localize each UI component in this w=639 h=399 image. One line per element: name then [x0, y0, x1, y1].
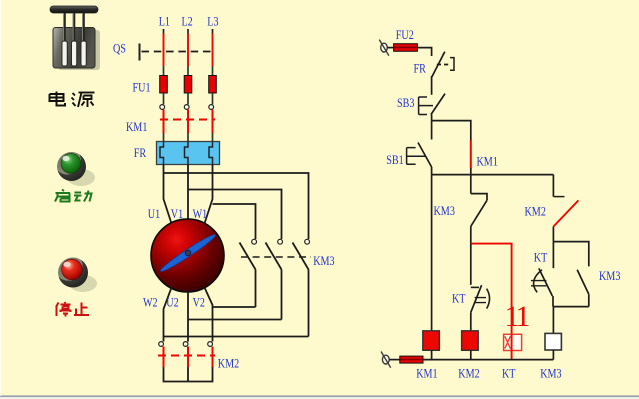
- svg-text:KM3: KM3: [434, 204, 456, 218]
- wire SB3 to node A: [431, 115, 433, 121]
- wire U phase to motor: [164, 165, 172, 224]
- wire KM2 aux to split node: [552, 226, 554, 241]
- svg-text:KM3: KM3: [313, 254, 335, 268]
- stop button ring: [58, 258, 88, 288]
- wire V2 from motor: [205, 288, 213, 342]
- knife switch icon body: [50, 6, 98, 68]
- wire node A to KM1 aux branch: [432, 121, 471, 141]
- start button ring: [57, 152, 86, 181]
- knife switch QS dashed linkage: [142, 51, 216, 53]
- wire bus to KM2 aux branch: [552, 175, 554, 197]
- fuse FU1 phase 2: [184, 76, 192, 94]
- svg-text:FU1: FU1: [133, 80, 151, 94]
- label FU1: [133, 80, 151, 94]
- label KT: [452, 291, 466, 305]
- svg-text:KT: KT: [534, 250, 548, 264]
- label KM1: [477, 154, 499, 168]
- wire split node to right branch: [553, 242, 588, 267]
- svg-text:FU2: FU2: [396, 28, 414, 42]
- wire bottom bus: [423, 359, 553, 361]
- text dianyuan 源: [72, 93, 95, 108]
- timer KT delayed contact left branch: [531, 242, 553, 307]
- coil KM2 energized: [462, 331, 479, 351]
- contactor KM1 aux contact closed: [470, 141, 472, 169]
- wire branch phase1 to KM3 column3: [164, 173, 309, 239]
- label W1: [193, 207, 208, 221]
- label KM3: [434, 204, 456, 218]
- wire into FR: [164, 133, 213, 142]
- wire KM3 coil to bottom bus: [552, 350, 554, 360]
- label V2: [193, 295, 206, 309]
- label V1: [171, 207, 184, 221]
- coil KT timer energized: [504, 334, 522, 350]
- wire W2 from motor: [164, 288, 172, 342]
- label SB1: [386, 153, 404, 167]
- label KM1: [126, 120, 148, 134]
- wire KM3 NC to node B: [470, 226, 472, 243]
- wire W phase to motor: [205, 165, 213, 224]
- wire SB1 to bus: [431, 167, 433, 175]
- contactor KM3 NC interlock contact: [471, 194, 487, 227]
- text qidong 动: [74, 191, 92, 202]
- pushbutton SB1 NO: [407, 143, 432, 168]
- start button shadow: [67, 169, 95, 186]
- svg-text:KM2: KM2: [218, 356, 240, 370]
- label KM2: [525, 204, 547, 218]
- label KT: [534, 250, 548, 264]
- label FR: [134, 146, 147, 160]
- wire terminal to bottom fuse: [389, 359, 400, 361]
- wire to KM3 coil: [552, 307, 554, 334]
- coil KM1 energized: [423, 331, 440, 351]
- label KM3 bottom: [540, 366, 562, 380]
- svg-text:KM1: KM1: [477, 154, 499, 168]
- svg-text:FR: FR: [134, 146, 147, 160]
- wire KM1 coil to bottom bus: [431, 350, 433, 359]
- svg-text:SB1: SB1: [386, 153, 404, 167]
- label W2: [143, 295, 158, 309]
- terminal node bottom-left: [381, 352, 391, 368]
- wire star point: [164, 367, 213, 382]
- thermal relay FR box: [157, 142, 220, 165]
- contactor KM3 main contact terminals: [252, 239, 310, 244]
- contactor KM2 main contact blades closed: [164, 347, 213, 368]
- wire phase L3 top: [212, 29, 214, 76]
- label QS: [113, 41, 126, 55]
- text qidong 启: [55, 190, 70, 202]
- wire KT coil to bottom bus: [511, 351, 513, 360]
- svg-text:KM2: KM2: [458, 366, 480, 380]
- wire below fuses: [164, 93, 213, 104]
- wire node A down to SB1: [431, 121, 433, 140]
- wire FR to SB3: [431, 76, 433, 95]
- svg-text:L2: L2: [182, 14, 193, 28]
- label L3: [207, 14, 218, 28]
- label U2: [166, 295, 179, 309]
- wire control bus: [432, 174, 554, 176]
- stop button highlight: [63, 262, 70, 267]
- motor M body: [151, 219, 224, 292]
- svg-text:W2: W2: [143, 295, 158, 309]
- start button cap: [61, 154, 81, 174]
- svg-text:U2: U2: [166, 295, 179, 309]
- wire U2 from motor: [187, 292, 189, 342]
- label FU2: [396, 28, 414, 42]
- label SB3: [397, 96, 415, 110]
- svg-text:FR: FR: [414, 61, 427, 75]
- thermal relay FR heater elements: [160, 142, 213, 165]
- contactor KM2 main contact terminals: [159, 342, 213, 347]
- label KM1 bottom: [416, 366, 438, 380]
- label FR: [414, 61, 427, 75]
- label KT bottom: [502, 366, 516, 380]
- knife switch icon shadow: [58, 30, 100, 70]
- text tingzhi 止: [74, 303, 89, 316]
- label U1: [148, 207, 161, 221]
- svg-text:KT: KT: [502, 366, 516, 380]
- terminal node top-left: [379, 40, 389, 56]
- wire V2 to KM3 column1 bottom: [213, 306, 256, 308]
- svg-text:SB3: SB3: [397, 96, 415, 110]
- wire branch B from bus: [470, 175, 472, 194]
- motor hub: [185, 250, 191, 256]
- wire node B down to KT contact: [470, 244, 472, 285]
- label KM2: [218, 356, 240, 370]
- pushbutton SB3 NC: [419, 94, 445, 115]
- fuse FU2: [394, 44, 418, 52]
- wire KM2 coil to bottom bus: [470, 350, 472, 359]
- wire KM1 aux to bus: [470, 168, 472, 175]
- thermal relay FR NC contact: [432, 52, 454, 77]
- svg-text:L1: L1: [159, 14, 170, 28]
- wire U2 to KM3 column2 bottom: [188, 319, 282, 321]
- fuse FU1 phase 3: [209, 76, 217, 94]
- wire branch phase3 to KM3 column1: [213, 204, 256, 239]
- stop button cap: [62, 259, 83, 280]
- svg-text:QS: QS: [113, 41, 126, 55]
- svg-text:11: 11: [505, 300, 530, 333]
- text tingzhi 停: [56, 302, 71, 317]
- wire V phase to motor: [187, 165, 189, 220]
- fuse FU1 phase 1: [160, 76, 168, 94]
- svg-text:KT: KT: [452, 291, 466, 305]
- contactor KM1 main contact terminals: [160, 105, 214, 110]
- wire phase L2 top: [187, 29, 189, 76]
- label KM2 bottom: [458, 366, 480, 380]
- svg-text:KM3: KM3: [599, 269, 621, 283]
- timer KT NO delayed contact: [471, 285, 490, 312]
- svg-text:KM3: KM3: [540, 366, 562, 380]
- label L1: [159, 14, 170, 28]
- wire terminal to FU2: [387, 47, 393, 49]
- contactor KM2 aux contact open: [553, 197, 578, 227]
- fuse FU2 bottom: [400, 356, 423, 363]
- wire phase L1 top: [163, 29, 165, 76]
- contactor KM2 dashed linkage: [158, 355, 215, 357]
- wire node B to KT coil red: [471, 244, 512, 335]
- stop button shadow: [69, 275, 97, 292]
- wire FU2 to FR contact: [417, 48, 431, 56]
- svg-text:KM1: KM1: [126, 120, 148, 134]
- knife switch QS bar: [139, 44, 141, 61]
- contactor KM1 dashed linkage: [160, 119, 215, 121]
- contactor KM3 aux contact open right: [577, 270, 589, 307]
- svg-text:L3: L3: [207, 14, 218, 28]
- start button highlight: [62, 156, 69, 161]
- svg-text:V2: V2: [193, 295, 206, 309]
- wire rejoin node: [553, 306, 588, 308]
- contactor KM3 dashed linkage: [241, 256, 311, 258]
- label KM3: [599, 269, 621, 283]
- wire KM3 column bottoms: [256, 270, 309, 337]
- contactor KM1 main contact blades closed: [164, 110, 213, 133]
- svg-text:KM2: KM2: [525, 204, 547, 218]
- label KM3: [313, 254, 335, 268]
- coil KM3 de-energized: [545, 333, 561, 350]
- motor propeller: [159, 232, 218, 274]
- svg-text:KM1: KM1: [416, 366, 438, 380]
- wire KT contact to KM2 coil: [470, 312, 472, 331]
- label L2: [182, 14, 193, 28]
- wire branch phase2 to KM3 column2: [188, 190, 282, 240]
- contactor KM3 main contact blades open: [240, 243, 309, 270]
- wire W2 to KM3 column3 bottom: [164, 336, 309, 338]
- text dianyuan 电: [50, 92, 66, 106]
- svg-text:U1: U1: [148, 207, 161, 221]
- wire branch to KM1 coil: [431, 175, 433, 331]
